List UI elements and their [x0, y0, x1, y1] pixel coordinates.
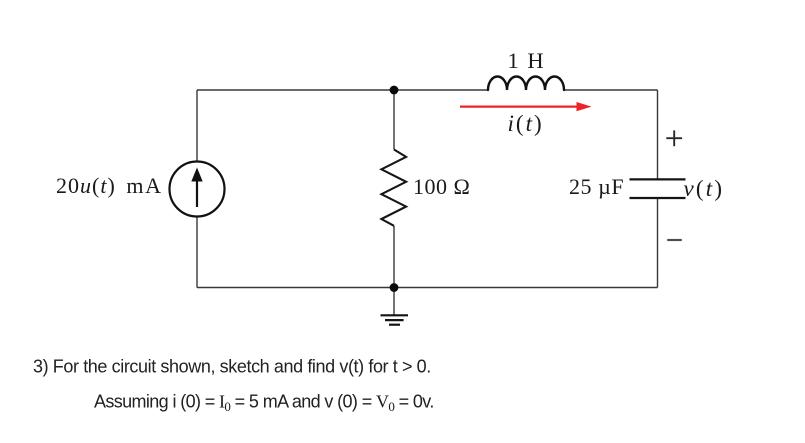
svg-text:20u(t) mA: 20u(t) mA — [56, 173, 163, 198]
svg-text:1 H: 1 H — [508, 48, 546, 73]
svg-text:100 Ω: 100 Ω — [413, 174, 470, 199]
svg-text:v(t): v(t) — [684, 176, 725, 201]
svg-text:25 µF: 25 µF — [569, 174, 624, 199]
svg-text:3) For the circuit shown, sket: 3) For the circuit shown, sketch and fin… — [33, 357, 431, 377]
svg-text:i(t): i(t) — [508, 111, 544, 136]
svg-text:Assuming i (0) = I0 = 5 mA and: Assuming i (0) = I0 = 5 mA and v (0) = V… — [94, 392, 434, 415]
